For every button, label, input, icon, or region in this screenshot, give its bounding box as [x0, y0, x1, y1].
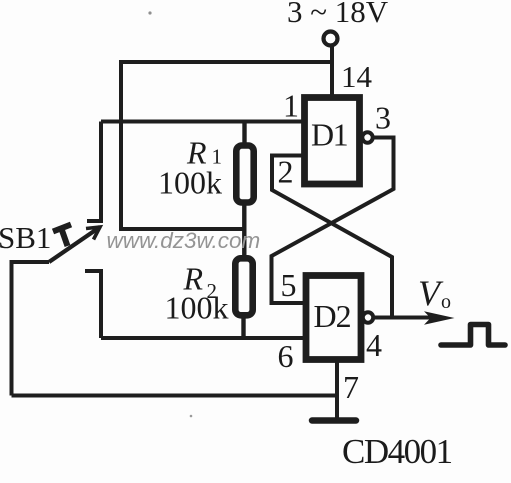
power terminal circle [324, 32, 338, 46]
svg-text:3 ~ 18V: 3 ~ 18V [287, 0, 389, 29]
switch SB1 arrowhead [86, 227, 100, 240]
svg-text:www.dz3w.com: www.dz3w.com [107, 228, 261, 253]
svg-text:3: 3 [375, 100, 391, 136]
speck [148, 11, 151, 14]
wire switch pole [12, 262, 50, 396]
svg-text:D2: D2 [314, 298, 351, 334]
NOR gate D2 box [306, 276, 361, 360]
wire switch lower contact to pin6 wire [85, 271, 101, 338]
svg-text:D1: D1 [311, 117, 348, 153]
wire left vertical to switch upper contact [87, 122, 101, 222]
svg-text:SB1: SB1 [0, 220, 51, 255]
svg-text:4: 4 [366, 327, 382, 363]
speck [190, 415, 193, 418]
wire power drop to pin 14 [330, 46, 334, 96]
svg-text:6: 6 [278, 338, 294, 374]
wire top-left from pin14 junction [121, 62, 332, 229]
svg-text:14: 14 [341, 59, 373, 94]
svg-text:1: 1 [283, 88, 299, 124]
wire pin 6 horizontal [101, 336, 305, 340]
wire D1 pin2 to D2 pin4 (cross wire A) [272, 156, 392, 318]
resistor R2 bottom lead [241, 314, 245, 338]
wire output Vo [374, 316, 432, 320]
inverter bubble pin 4 [363, 312, 373, 322]
pulse waveform [441, 325, 505, 346]
wire D1 pin3 to D2 pin5 (cross wire B) [272, 138, 394, 304]
svg-text:100k: 100k [158, 165, 222, 201]
svg-text:CD4001: CD4001 [342, 432, 452, 471]
svg-text:2: 2 [278, 154, 294, 190]
resistor R2 body [235, 258, 252, 315]
svg-text:7: 7 [343, 369, 359, 405]
switch SB1 actuator T stem [61, 228, 68, 247]
switch SB1 lever [49, 227, 100, 262]
wire pin 7 vertical [335, 362, 339, 419]
wire bottom ground run [12, 394, 338, 398]
resistor R1 body [236, 146, 253, 203]
output arrowhead [424, 311, 455, 324]
wire pin 1 horizontal [101, 120, 302, 124]
resistor R1 leads [242, 122, 246, 148]
switch SB1 actuator T bar [53, 225, 71, 232]
svg-text:100k: 100k [165, 290, 229, 326]
svg-text:o: o [441, 291, 451, 313]
ground bar [312, 417, 356, 424]
svg-text:5: 5 [281, 267, 297, 303]
inverter bubble pin 3 [362, 132, 372, 142]
NOR gate D1 box [305, 98, 360, 185]
